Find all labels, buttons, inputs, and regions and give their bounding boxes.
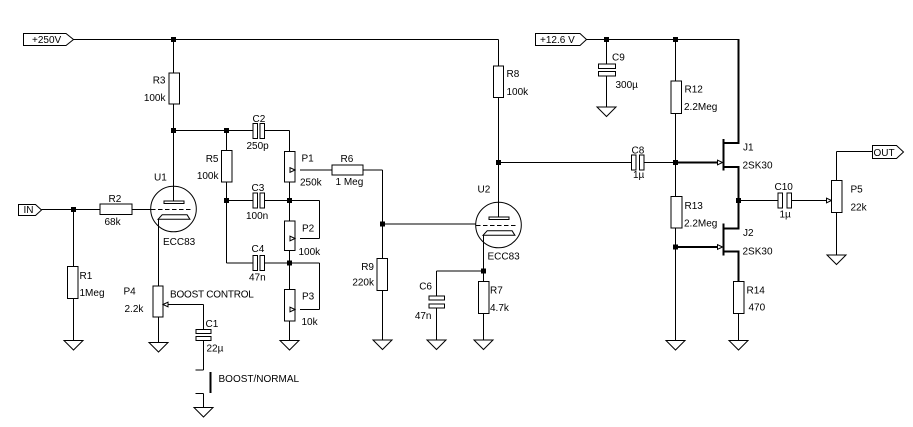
potentiometer P1	[285, 152, 296, 183]
wire U2 cathode	[483, 236, 485, 282]
svg-text:100k: 100k	[144, 93, 167, 104]
svg-text:U1: U1	[154, 173, 167, 184]
wire P3 wiper loop	[300, 309, 320, 311]
capacitor C4	[253, 256, 258, 271]
svg-text:P3: P3	[302, 292, 315, 303]
capacitor C8	[632, 155, 637, 170]
resistor R14	[734, 282, 745, 314]
OUT port flag	[873, 146, 904, 159]
svg-text:P5: P5	[851, 185, 864, 196]
ground R7	[474, 340, 493, 350]
svg-text:C3: C3	[252, 183, 265, 194]
wire R5 bottom to C4 row	[226, 182, 228, 263]
svg-text:2SK30: 2SK30	[743, 161, 773, 172]
wire P5 bottom	[836, 213, 838, 256]
svg-text:R14: R14	[747, 286, 766, 297]
wire P2 wiper loop	[300, 238, 320, 240]
wire +250V rail	[74, 39, 499, 41]
wire P4 bottom	[158, 317, 160, 343]
svg-text:22k: 22k	[851, 203, 868, 214]
P5 wiper arrow	[827, 198, 832, 203]
svg-text:+12.6 V: +12.6 V	[540, 35, 575, 46]
resistor R9	[377, 259, 388, 291]
junction U2 cathode node	[481, 269, 486, 274]
IN port flag	[19, 205, 42, 216]
wire R1 top	[73, 210, 75, 267]
svg-text:OUT: OUT	[874, 148, 895, 159]
wire U1 cathode	[158, 220, 160, 287]
svg-text:1µ: 1µ	[633, 170, 645, 181]
junction J2 gate node	[673, 245, 678, 250]
ground P5	[827, 255, 846, 265]
ground R13	[666, 341, 685, 351]
capacitor C2	[253, 124, 258, 139]
wire R6 to U2 grid node	[363, 169, 383, 171]
op-amp U2 triode ECC83	[476, 202, 522, 248]
svg-text:BOOST/NORMAL: BOOST/NORMAL	[219, 374, 300, 385]
svg-text:BOOST CONTROL: BOOST CONTROL	[170, 290, 254, 301]
svg-text:P1: P1	[302, 154, 315, 165]
capacitor C9	[599, 64, 616, 69]
svg-text:100k: 100k	[299, 247, 322, 258]
svg-text:R13: R13	[685, 201, 704, 212]
svg-text:4.7k: 4.7k	[490, 303, 510, 314]
svg-text:R5: R5	[206, 154, 219, 165]
svg-text:250k: 250k	[300, 178, 323, 189]
wire R7 bottom	[483, 314, 485, 341]
ground C9	[597, 107, 616, 117]
svg-text:2SK30: 2SK30	[743, 247, 773, 258]
svg-text:R7: R7	[490, 286, 503, 297]
capacitor C6	[429, 296, 445, 300]
svg-text:C2: C2	[253, 114, 266, 125]
wire U2 plate lead	[498, 163, 500, 218]
svg-text:47n: 47n	[415, 311, 432, 322]
switch bottom contact	[196, 393, 204, 395]
svg-text:J2: J2	[743, 228, 754, 239]
wire C3 left	[227, 200, 254, 202]
junction +250V/R3	[171, 37, 176, 42]
wire C8 right	[644, 162, 676, 164]
svg-text:R8: R8	[507, 69, 520, 80]
potentiometer P3	[285, 290, 296, 322]
resistor R13	[671, 197, 682, 229]
svg-text:P2: P2	[302, 224, 315, 235]
wire C4 left	[227, 262, 254, 264]
wire U2 plate to C8	[499, 162, 632, 164]
svg-text:R9: R9	[361, 262, 374, 273]
junction +12.6V/R12	[673, 37, 678, 42]
potentiometer P5	[832, 181, 843, 213]
potentiometer P2	[285, 221, 296, 251]
svg-text:C1: C1	[206, 319, 219, 330]
resistor R8	[494, 66, 504, 98]
svg-text:220k: 220k	[352, 278, 375, 289]
svg-text:ECC83: ECC83	[488, 252, 521, 263]
ground C6	[427, 340, 446, 350]
svg-text:U2: U2	[478, 185, 491, 196]
wire rail to R8	[498, 40, 500, 67]
junction +12.6V/C9	[604, 37, 609, 42]
wire plate node to C2 row	[174, 130, 254, 132]
+12.6V supply flag	[536, 34, 587, 46]
svg-text:1µ: 1µ	[780, 210, 792, 221]
wire R3 to U1 plate	[173, 104, 175, 202]
wire C9 bottom	[606, 76, 608, 107]
wire C3 right	[265, 200, 290, 202]
resistor R1	[68, 267, 79, 299]
junction R5 top	[224, 128, 229, 133]
capacitor C10	[778, 193, 783, 208]
capacitor C3	[253, 193, 258, 208]
svg-text:250p: 250p	[247, 141, 270, 152]
ground switch	[194, 408, 213, 418]
svg-text:100k: 100k	[197, 171, 220, 182]
potentiometer P4	[153, 286, 163, 317]
wire R12 to gate node	[675, 114, 677, 197]
wire P1 wiper to R6	[300, 169, 332, 171]
svg-text:+250V: +250V	[32, 35, 62, 46]
svg-text:470: 470	[749, 303, 766, 314]
svg-text:1 Meg: 1 Meg	[336, 177, 364, 188]
ground P4	[149, 343, 168, 353]
wire P3 bottom	[289, 321, 291, 341]
wire C2 right	[265, 130, 290, 132]
svg-text:22µ: 22µ	[207, 344, 224, 355]
wire P1 bottom	[289, 182, 291, 201]
resistor R7	[479, 282, 490, 314]
svg-text:2.2Meg: 2.2Meg	[684, 102, 717, 113]
junction R5/C3	[224, 198, 229, 203]
wire P4 wiper to C1	[168, 304, 204, 306]
ground R14	[729, 341, 748, 351]
P2 wiper arrow	[290, 236, 295, 241]
ground R1	[64, 341, 83, 351]
svg-text:100k: 100k	[507, 87, 530, 98]
wire P2 top	[289, 201, 291, 222]
svg-text:300µ: 300µ	[616, 80, 639, 91]
junction J1 source / C10	[736, 198, 741, 203]
svg-text:P4: P4	[124, 287, 137, 298]
P4 wiper arrow	[163, 302, 168, 307]
svg-text:R2: R2	[109, 194, 122, 205]
junction U2 grid node	[380, 222, 385, 227]
svg-text:J1: J1	[743, 143, 754, 154]
svg-text:100n: 100n	[246, 211, 268, 222]
svg-text:C10: C10	[775, 182, 794, 193]
svg-text:ECC83: ECC83	[163, 237, 196, 248]
wire R5 top	[226, 131, 228, 151]
wire R14 bottom	[738, 314, 740, 341]
switch bar	[210, 372, 212, 393]
wire R13 bottom to ground	[675, 228, 677, 341]
junction U2 plate node	[496, 160, 501, 165]
resistor R5	[222, 151, 233, 183]
svg-text:C6: C6	[419, 282, 432, 293]
wire cathode to C6	[437, 270, 484, 272]
wire C1 to switch	[203, 341, 205, 371]
resistor R6	[332, 165, 363, 175]
op-amp U1 triode ECC83	[151, 186, 197, 232]
+250V supply flag	[24, 34, 74, 46]
ground R9	[373, 340, 392, 350]
svg-text:R3: R3	[153, 76, 166, 87]
junction J1 gate node	[673, 160, 678, 165]
wire IN to R2	[42, 209, 101, 211]
svg-text:10k: 10k	[302, 317, 319, 328]
transistor J2 2SK30	[723, 224, 725, 256]
junction IN/R1	[71, 207, 76, 212]
wire U2 grid	[383, 223, 477, 225]
wire P3 top	[289, 263, 291, 290]
svg-text:68k: 68k	[105, 217, 122, 228]
svg-text:C8: C8	[632, 146, 645, 157]
wire C4 right	[265, 262, 290, 264]
svg-text:2.2Meg: 2.2Meg	[684, 219, 717, 230]
resistor R3	[169, 73, 180, 104]
capacitor C1	[196, 330, 211, 334]
resistor R12	[671, 81, 682, 114]
wire J1 source to C10	[740, 200, 779, 202]
junction U1 plate node	[171, 128, 176, 133]
wire rail to R3	[173, 40, 175, 74]
switch BOOST/NORMAL top contact	[196, 369, 204, 371]
wire R9 bottom	[382, 291, 384, 341]
wire C6 bottom	[436, 308, 438, 340]
wire P2 bottom	[289, 251, 291, 264]
P1 wiper arrow	[290, 168, 295, 173]
P3 wiper arrow	[290, 307, 295, 312]
wire rail to C9	[606, 40, 608, 65]
svg-text:47n: 47n	[249, 273, 266, 284]
svg-text:1Meg: 1Meg	[80, 288, 105, 299]
wire P5 top to OUT	[836, 152, 838, 181]
svg-text:C4: C4	[252, 244, 265, 255]
ground P3	[280, 341, 299, 351]
resistor R2	[100, 204, 132, 215]
wire R8 to plate node	[498, 98, 500, 164]
wire R1 bottom	[73, 299, 75, 341]
svg-text:R12: R12	[685, 85, 704, 96]
junction P2 bottom / P3 top	[287, 261, 292, 266]
junction P1 bottom / P2 top	[287, 198, 292, 203]
transistor J1 2SK30	[723, 139, 725, 171]
wire +12.6V rail	[587, 39, 740, 41]
svg-text:2.2k: 2.2k	[125, 304, 145, 315]
svg-text:R1: R1	[80, 271, 93, 282]
wire rail to R12	[675, 40, 677, 82]
svg-text:R6: R6	[341, 154, 354, 165]
svg-text:C9: C9	[612, 53, 625, 64]
wire C10 to P5 wiper	[792, 200, 827, 202]
svg-text:IN: IN	[24, 205, 34, 216]
wire R2 to U1 grid	[132, 209, 151, 211]
